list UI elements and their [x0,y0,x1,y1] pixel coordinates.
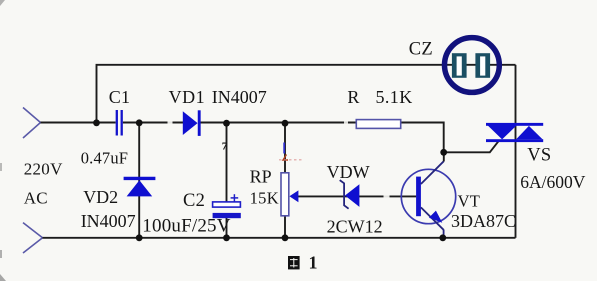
svg-text:7: 7 [222,141,228,153]
label AC [24,189,48,208]
value 3DA87C [451,211,516,231]
svg-text:VDW: VDW [327,162,370,182]
wire: top rail VD1 to R [200,122,357,124]
wire: top rail R to corner, drop to gate node [401,123,444,153]
svg-text:1: 1 [309,253,318,273]
wire: C2 branch top [226,123,228,202]
diode VD1 IN4007 [183,110,199,136]
artifact: faded wire gap left of R [344,121,348,124]
svg-text:VD1: VD1 [169,87,206,107]
junction node RP bottom [282,234,289,241]
svg-text:C1: C1 [109,87,131,107]
wire: wiper to VDW to base of VT [291,195,416,197]
label C2 [183,191,205,211]
wire: riser and feed to CZ socket [97,65,516,123]
wire: triac vertical through body to bottom rail [515,123,517,238]
input terminal top (L) [23,108,41,139]
wire: CZ to triac top [515,65,517,123]
svg-text:IN4007: IN4007 [212,87,267,107]
svg-text:VT: VT [458,192,481,211]
capacitor C2 (electrolytic) [213,194,241,218]
wire: top rail C1 to VD1 [123,122,183,124]
transistor VT 3DA87C [401,152,455,238]
svg-text:2CW12: 2CW12 [327,217,383,237]
label VD1 [169,87,206,107]
diode VD2 IN4007 [124,178,156,196]
svg-text:6A/600V: 6A/600V [520,172,586,192]
label CZ [409,40,433,60]
artifact: blue tick near RP riser [283,143,285,154]
svg-text:15K: 15K [250,189,279,208]
svg-text:VS: VS [527,146,551,166]
value 6A/600V [520,172,586,192]
label VS [527,146,551,166]
artifact: small blue 7 near C2 riser [222,141,228,153]
value 220V [24,160,63,179]
resistor R 5.1K [356,120,400,129]
value IN4007 (VD2) [81,211,136,231]
svg-text:3DA87C: 3DA87C [451,211,516,231]
svg-text:C2: C2 [183,191,205,211]
svg-text:0.47uF: 0.47uF [81,149,129,168]
capacitor C1 [117,110,122,136]
wire: RP branch top [284,123,286,173]
junction node C1/VD2 [136,119,143,126]
value 100uF/25V [142,216,230,237]
svg-text:VD2: VD2 [83,187,118,207]
label VD2 [83,187,118,207]
wire: RP branch bottom [284,216,286,238]
artifact: faded wire gap right of VDW [384,195,390,198]
junction node C2 bottom [223,234,230,241]
junction node VD2 bottom [136,234,143,241]
artifact: faded wire gap left of VD1 [168,121,173,124]
value 0.47uF [81,149,129,168]
value IN4007 (VD1) [212,87,267,107]
junction node gate/collector [440,149,447,156]
junction node emitter bottom [439,234,446,241]
zener diode VDW 2CW12 [340,180,360,209]
label C1 [109,87,131,107]
value 2CW12 [327,217,383,237]
junction node VD1/C2 [223,120,230,127]
svg-text:5.1K: 5.1K [376,87,413,107]
value 15K [250,189,279,208]
value 5.1K [376,87,413,107]
wire: top rail from input to C1 [41,122,116,124]
svg-text:RP: RP [250,167,272,187]
label VDW [327,162,370,182]
artifact: faint red dashed line [279,159,303,161]
wire: C2 branch bottom [226,218,228,238]
caption 图 1 (hand-drawn CJK glyph + numeral) [288,253,318,273]
artifact: edge smudges [0,0,6,281]
svg-text:CZ: CZ [409,40,433,60]
label RP [250,167,272,187]
wire: bottom rail [43,237,516,239]
svg-text:100uF/25V: 100uF/25V [142,216,230,237]
artifact: red mark near RP riser [283,155,288,161]
label VT [458,192,481,211]
svg-text:R: R [347,87,359,107]
svg-text:220V: 220V [24,160,63,179]
svg-text:AC: AC [24,189,48,208]
potentiometer RP [281,173,298,216]
wire: VD2 branch vertical [138,123,140,238]
triac VS [486,123,543,142]
input terminal bottom (N) [23,223,43,253]
wire: gate of triac to junction [444,141,499,152]
svg-text:IN4007: IN4007 [81,211,136,231]
junction node top rail at CZ riser [93,119,100,126]
socket CZ [445,38,500,93]
junction node RP top [282,120,289,127]
label R [347,87,359,107]
